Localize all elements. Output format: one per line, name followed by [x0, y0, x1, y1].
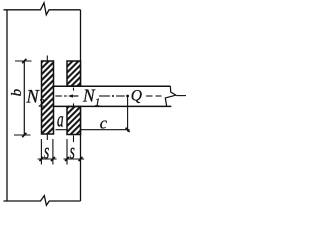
wall bottom edge with break symbol	[4, 196, 81, 206]
dimension s (left) tick arrows	[40, 157, 44, 161]
c reference line left part (under label a)	[56, 129, 67, 131]
key bar 2 vertical centerline dash above beam axis	[73, 88, 75, 91]
centerline tick above bar 1	[46, 56, 48, 61]
force Q application dot	[126, 95, 129, 98]
centerline tick below bar 1	[46, 135, 48, 141]
dimension b bottom extension line	[14, 134, 31, 136]
svg-text:c: c	[100, 113, 108, 132]
wall right face line lower	[80, 107, 82, 202]
beam centerline dash-dot	[55, 95, 186, 97]
dimension s (right) extension line	[66, 139, 68, 165]
key bar 1 (hatched)	[42, 61, 54, 134]
dimension s (left) line	[38, 158, 57, 160]
beam bottom edge	[54, 105, 172, 107]
svg-text:s: s	[70, 139, 75, 165]
key bar 2 vertical centerline dash below beam axis	[73, 103, 75, 107]
force N1 arrow (points left onto key bar 2)	[73, 95, 79, 97]
key bar 2 lower part (hatched)	[67, 107, 81, 135]
wall top edge with break symbol	[4, 3, 81, 15]
dimension b top tick arrow	[22, 59, 26, 63]
svg-text:Q: Q	[131, 87, 142, 104]
wall left face line	[6, 10, 8, 201]
beam break symbol at right	[165, 86, 176, 106]
svg-text:s: s	[44, 139, 49, 165]
dimension b bottom tick arrow	[22, 133, 26, 137]
svg-text:b: b	[9, 88, 25, 96]
centerline tick below bar 2	[73, 136, 75, 143]
dimension b top extension line	[15, 60, 32, 62]
centerline short dash before arrow	[64, 95, 67, 97]
dimension s (left) extension lines	[40, 139, 42, 165]
wall right face line upper	[80, 10, 82, 86]
c reference line right part	[81, 129, 130, 131]
dimension b line	[23, 61, 25, 135]
force Q / dimension c tick arrow	[126, 128, 130, 132]
beam top edge	[54, 85, 171, 87]
svg-text:a: a	[57, 107, 64, 131]
key bar 2 upper part (hatched)	[67, 61, 81, 86]
dimension s (right) line	[64, 158, 85, 160]
dimension s (right) tick arrows	[65, 157, 69, 161]
force Q arrow line (downward)	[127, 96, 129, 132]
centerline dot between N1 and Q	[112, 95, 114, 97]
